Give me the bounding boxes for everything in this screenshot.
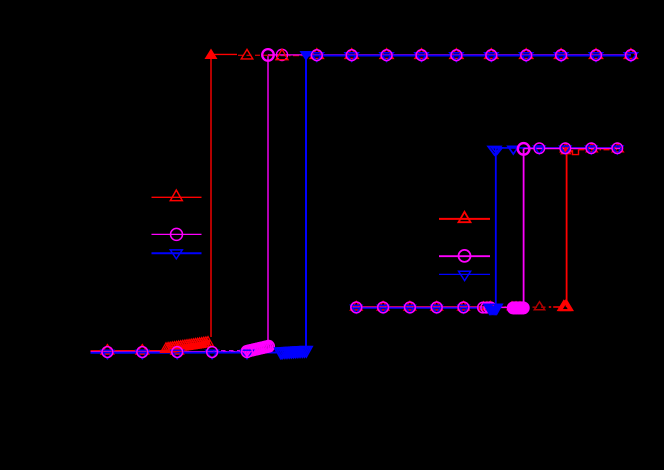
inset red top step (567, 150, 579, 155)
inset bold blue triangle at jump (488, 147, 500, 155)
bold magenta circle at 268 (262, 49, 274, 61)
inset top data markers (534, 143, 624, 154)
inset red top dashdot (579, 149, 618, 151)
inset blue triangle at 513 (508, 146, 519, 154)
red triangle at 282 (276, 49, 288, 59)
blue vertical jump (305, 55, 307, 347)
inset clusters (478, 301, 573, 314)
legend 1 magenta entry (152, 228, 202, 240)
inset red bottom line (350, 306, 496, 308)
main blue cluster markers (275, 347, 313, 359)
inset magenta vertical jump (523, 149, 525, 304)
main blue dashes after red jump (213, 351, 245, 353)
red top dashdot (268, 55, 316, 57)
legend 2 blue entry (439, 271, 490, 280)
legend 1 blue entry (152, 250, 202, 259)
inset bold magenta circle at jump (518, 143, 530, 155)
red vertical jump (210, 54, 212, 337)
magenta vertical jump (267, 55, 269, 346)
magenta circle at 282 (276, 49, 287, 60)
inset magenta top line (524, 148, 620, 150)
legend 2 magenta entry (439, 250, 490, 262)
inset blue top line (496, 147, 620, 149)
main magenta dashes after red jump (213, 350, 241, 352)
main bottom data markers (101, 345, 288, 359)
red top dim dashes (238, 54, 268, 56)
main magenta curve bottom line (91, 351, 241, 353)
magenta top line (268, 54, 631, 56)
red top line solid (211, 53, 237, 55)
inset red bottom dashdot (496, 306, 524, 308)
bold red triangle at main jump (205, 49, 218, 60)
inset blue vertical jump (495, 148, 497, 304)
legend 2 red entry (439, 212, 490, 222)
main blue curve bottom line (91, 352, 279, 354)
inset magenta bottom line (350, 306, 524, 308)
blue top line (306, 55, 631, 57)
inset bold red triangle at jump (560, 146, 572, 154)
legend 1 red entry (152, 190, 202, 201)
inset bottom data markers (351, 301, 497, 313)
main red cluster markers (172, 339, 210, 350)
open red triangle at 247 (241, 49, 253, 59)
inset blue bottom line (350, 307, 496, 309)
bold blue triangle-down at 306 (300, 51, 313, 61)
main top data markers (310, 49, 637, 62)
main red curve bottom line (91, 343, 211, 351)
inset red vertical jump (566, 150, 568, 307)
main magenta cluster markers (241, 341, 274, 357)
